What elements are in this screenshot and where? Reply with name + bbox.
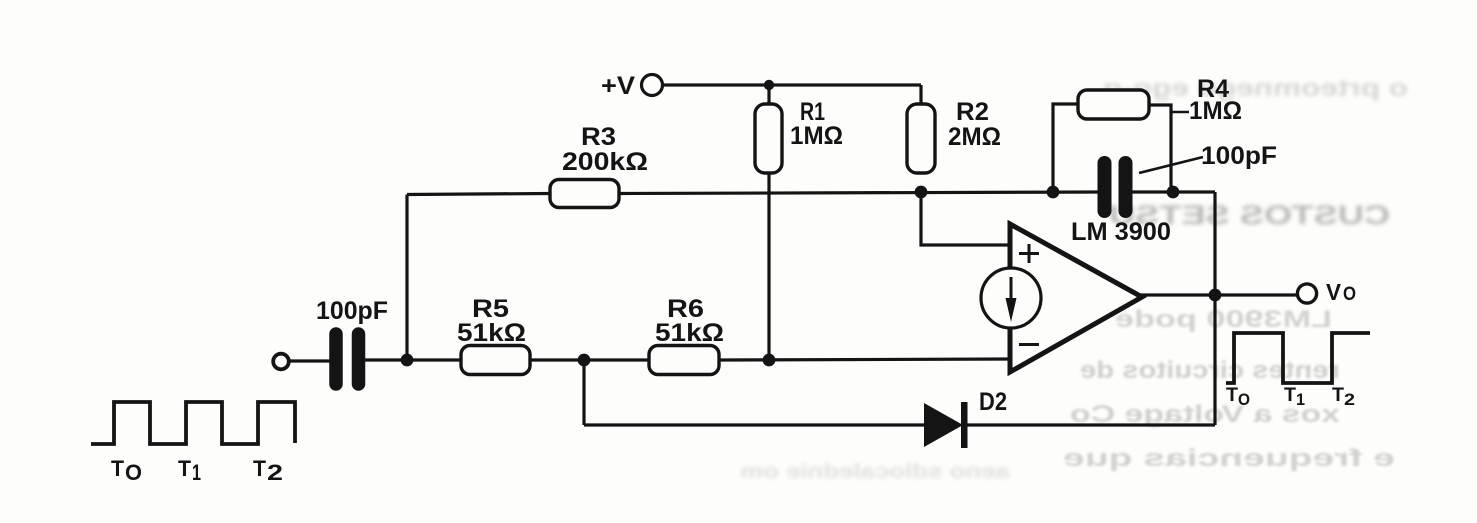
svg-text:1MΩ: 1MΩ — [790, 122, 843, 150]
bleed-through text from reverse page (decorative) — [740, 75, 1408, 483]
svg-text:2: 2 — [267, 460, 283, 485]
wire D2 branch down — [582, 360, 585, 425]
terminal +V — [642, 75, 663, 96]
svg-text:O: O — [125, 460, 142, 485]
svg-text:100pF: 100pF — [316, 297, 388, 325]
svg-text:T: T — [1332, 385, 1344, 406]
leader line for 100pF label — [1139, 157, 1203, 173]
svg-text:T: T — [1226, 385, 1238, 406]
svg-text:LM 3900: LM 3900 — [1071, 218, 1171, 246]
svg-text:O: O — [1343, 284, 1356, 305]
svg-text:O: O — [1238, 390, 1250, 409]
svg-text:e frequencias que: e frequencias que — [1063, 445, 1395, 472]
op-amp current source arrow — [1010, 277, 1013, 302]
terminal input — [273, 354, 289, 370]
resistor R6 — [649, 346, 719, 375]
svg-text:1: 1 — [192, 460, 201, 485]
op-amp U1 triangle — [1010, 224, 1142, 372]
junction dot output node — [1209, 289, 1222, 302]
svg-text:T: T — [111, 456, 125, 481]
wire R6 to minus input — [719, 359, 1013, 360]
junction dot input node — [401, 354, 414, 367]
wire D2 branch left segment — [584, 423, 930, 426]
resistor R5 — [461, 346, 530, 375]
op-amp current source circle — [981, 268, 1041, 328]
op-amp plus sign — [1019, 244, 1039, 263]
svg-text:1: 1 — [1296, 390, 1305, 409]
capacitor input 100pF plate 2 — [352, 334, 366, 384]
svg-text:R2: R2 — [956, 98, 989, 126]
junction dot R4 network left — [1047, 186, 1060, 199]
svg-text:V: V — [1326, 279, 1342, 305]
wire plus input — [921, 192, 1011, 245]
junction dot R4 network right — [1167, 186, 1180, 199]
svg-text:2MΩ: 2MΩ — [948, 123, 1001, 151]
wire feedback right riser — [1213, 192, 1216, 425]
junction dot R6 R1 node — [763, 354, 776, 367]
wire op-amp output — [1140, 293, 1297, 296]
wire feedback line left segment — [407, 194, 550, 195]
junction dot R5 R6 node — [578, 354, 591, 367]
wire D2 branch right segment — [961, 423, 1215, 426]
resistor R3 — [550, 180, 619, 208]
junction dot R2 bottom — [915, 186, 928, 199]
op-amp minus sign — [1019, 343, 1039, 346]
terminal V0 — [1297, 284, 1316, 303]
resistor R4 — [1078, 90, 1149, 119]
svg-text:100pF: 100pF — [1201, 142, 1277, 170]
wire cap to R5 — [365, 358, 461, 361]
wire feedback line middle segment — [619, 192, 1103, 194]
junction dot +V/R1 — [764, 80, 774, 90]
svg-text:51kΩ: 51kΩ — [655, 319, 724, 347]
leader line for 1M ohm label — [1171, 111, 1189, 114]
capacitor feedback 100pF plate 1 — [1098, 163, 1112, 211]
svg-text:D2: D2 — [979, 388, 1007, 416]
capacitor feedback 100pF plate 2 — [1119, 163, 1133, 211]
input waveform — [91, 402, 295, 444]
svg-text:1MΩ: 1MΩ — [1189, 97, 1242, 125]
svg-text:T: T — [253, 456, 267, 481]
wire feedback line right segment — [1129, 190, 1215, 193]
svg-text:2: 2 — [1344, 390, 1355, 409]
wire R4 left riser — [1053, 104, 1078, 192]
svg-text:T: T — [1284, 385, 1296, 406]
svg-text:LM3900 pode: LM3900 pode — [1115, 306, 1332, 333]
wire R2 top lead — [919, 85, 922, 104]
svg-text:R3: R3 — [581, 123, 616, 151]
wire R4 right lead riser — [1149, 105, 1171, 192]
wire +V rail — [663, 83, 921, 86]
wire left riser to input node — [405, 195, 408, 361]
resistor R1 — [755, 104, 782, 173]
svg-text:aeno sdlocalednie om: aeno sdlocalednie om — [740, 461, 1010, 483]
svg-text:200kΩ: 200kΩ — [562, 148, 648, 176]
output waveform — [1226, 333, 1370, 383]
wire R1 top lead — [767, 85, 770, 104]
wire input terminal to cap — [290, 359, 331, 362]
resistor R2 — [907, 104, 935, 173]
diode D2 — [924, 403, 963, 447]
svg-text:51kΩ: 51kΩ — [457, 319, 526, 347]
svg-text:T: T — [178, 456, 192, 481]
capacitor input 100pF plate 1 — [329, 334, 343, 384]
wire R5 to R6 — [529, 358, 650, 361]
svg-text:+V: +V — [601, 72, 635, 100]
svg-text:rentes circuitos de: rentes circuitos de — [1080, 357, 1340, 384]
wire R1 bottom lead to minus line — [767, 173, 770, 360]
